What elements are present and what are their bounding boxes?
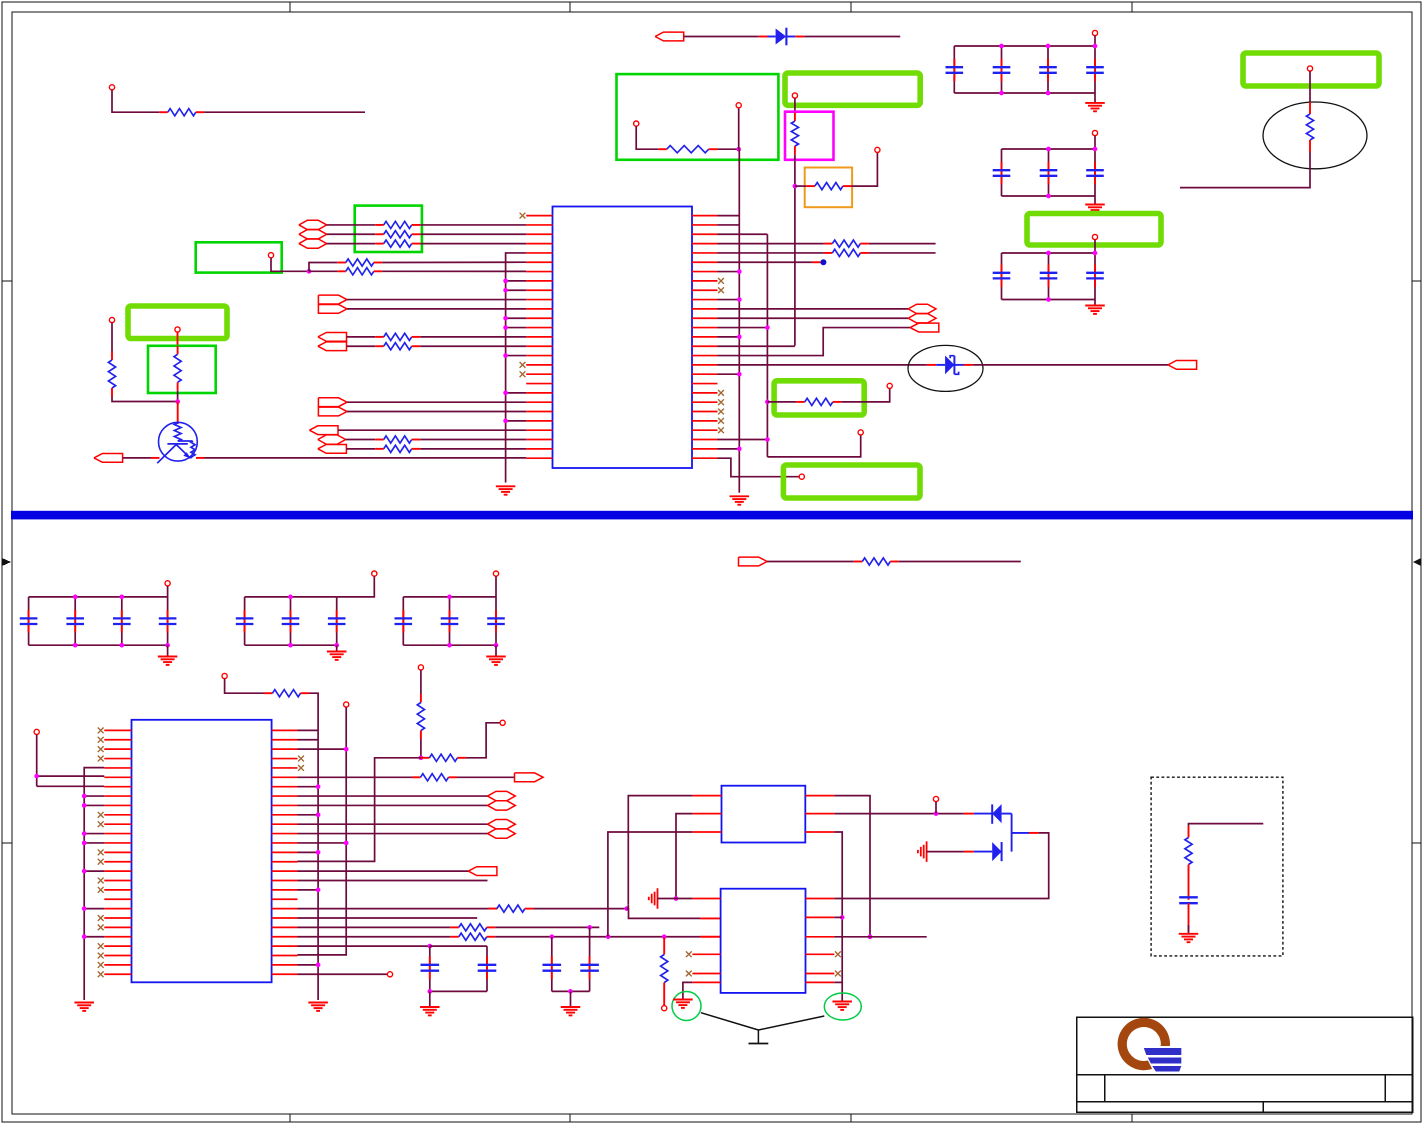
wire net3b bbox=[717, 148, 738, 150]
capacitor C25 bbox=[1179, 896, 1198, 898]
power pin P20 bbox=[222, 673, 227, 678]
IC U4 left pin stubs bbox=[692, 898, 720, 900]
wire net10a bbox=[327, 233, 376, 235]
port A8 bbox=[318, 444, 347, 453]
wire net24b bbox=[177, 391, 179, 402]
no-connect marks U2 left bbox=[98, 728, 104, 734]
wire net26 bbox=[718, 215, 740, 217]
wire net56b bbox=[533, 908, 626, 910]
junction J19 bbox=[840, 915, 845, 920]
junctions bank5 bbox=[288, 595, 293, 600]
wire net70 bbox=[834, 832, 842, 1001]
port A7 bbox=[309, 426, 338, 435]
junction J17 bbox=[868, 934, 873, 939]
wire net59b bbox=[495, 936, 700, 938]
wire net53 bbox=[298, 870, 469, 872]
power pin P3 bbox=[736, 103, 741, 108]
power pin P14 bbox=[799, 474, 804, 479]
wire net9b bbox=[420, 224, 526, 226]
wire net17b bbox=[420, 345, 526, 347]
wire net42t bbox=[495, 576, 497, 597]
wire net41t bbox=[337, 576, 375, 597]
capacitor C6 bbox=[1048, 149, 1050, 196]
resistor R10 bbox=[337, 270, 346, 272]
resistor R6 bbox=[375, 224, 384, 226]
highlight circle green 1 bbox=[672, 992, 701, 1021]
resistor R17 bbox=[824, 243, 833, 245]
wire net61b bbox=[430, 945, 487, 947]
diode D1 bbox=[759, 36, 768, 38]
earth bond wires bbox=[701, 1013, 759, 1030]
capacitor C20 bbox=[495, 597, 497, 645]
wire net25b bbox=[196, 457, 205, 459]
power pin P23 bbox=[500, 720, 505, 725]
wire net60 bbox=[663, 991, 665, 1006]
resistor R5 bbox=[1309, 102, 1311, 114]
capacitor C23 bbox=[429, 946, 431, 991]
port H3 bbox=[299, 239, 327, 248]
resistor R11 bbox=[375, 336, 384, 338]
capacitor bank rail net41 bbox=[245, 596, 337, 598]
highlight box green A bbox=[617, 74, 779, 160]
zener diode D2 bbox=[927, 364, 936, 366]
port H6 bbox=[908, 314, 936, 323]
wire net61c bbox=[430, 990, 487, 992]
wire net44 bbox=[36, 735, 38, 787]
wire net3c bbox=[738, 108, 740, 149]
dual diode D3 bbox=[964, 813, 974, 815]
capacitor bank rail net6 bbox=[1002, 148, 1096, 150]
wire net4b bbox=[794, 155, 796, 346]
wire net75 bbox=[1188, 903, 1190, 931]
power pin P1 bbox=[109, 85, 114, 90]
power pin P11 bbox=[109, 317, 114, 322]
resistor R9 bbox=[337, 262, 346, 264]
resistor R28 bbox=[663, 938, 665, 947]
highlight circle green 2 bbox=[824, 993, 861, 1020]
power pin P25 bbox=[387, 972, 392, 977]
wire net67b bbox=[935, 802, 937, 814]
node end marker bbox=[820, 259, 826, 265]
junctions bank6 bbox=[447, 595, 452, 600]
junctions bank3 bbox=[1046, 251, 1051, 256]
capacitor bank rail net42 bbox=[403, 596, 496, 598]
power pin P4 bbox=[792, 93, 797, 98]
highlight box lime B bbox=[1243, 53, 1379, 86]
IC U1 bbox=[553, 207, 693, 469]
junction rows bus46 bbox=[298, 786, 319, 788]
resistor R4 bbox=[806, 185, 815, 187]
wire net3a bbox=[636, 126, 658, 149]
port H4 bbox=[318, 435, 346, 444]
IC U4 bbox=[721, 889, 806, 993]
junction J3 bbox=[307, 269, 312, 274]
port H2 bbox=[299, 230, 327, 239]
power pin P26 bbox=[933, 796, 938, 801]
vertical bus net29 bbox=[718, 233, 768, 235]
wire net68 bbox=[927, 851, 964, 853]
port PORT3 bbox=[739, 557, 768, 566]
highlight box lime A bbox=[785, 73, 920, 105]
capacitor C4 bbox=[1094, 46, 1096, 93]
highlight box lime B2 bbox=[1027, 214, 1161, 246]
resistor R14 bbox=[375, 448, 384, 450]
port PORT4 bbox=[515, 773, 544, 782]
wire net59a bbox=[298, 936, 451, 938]
port H5 bbox=[908, 304, 936, 313]
wire net24a bbox=[177, 332, 179, 346]
wire net54 bbox=[298, 879, 488, 881]
port A9 bbox=[910, 323, 939, 332]
port A2 bbox=[318, 305, 347, 314]
capacitor C19 bbox=[449, 597, 451, 645]
wire net58b bbox=[495, 926, 599, 928]
ellipse marker E2 bbox=[1263, 102, 1367, 169]
wire net22b bbox=[420, 448, 526, 450]
ground GND13 bbox=[832, 1001, 852, 1003]
capacitor C12 bbox=[74, 597, 76, 645]
junction J11 bbox=[606, 934, 611, 939]
capacitor C22 bbox=[551, 937, 553, 992]
port H9 bbox=[488, 820, 516, 829]
wire net29b bbox=[767, 435, 860, 457]
IC U2 bbox=[132, 720, 272, 983]
capacitor bank rail net7 bbox=[1002, 252, 1096, 254]
wire net8a bbox=[1309, 71, 1311, 102]
ground GND6 bbox=[167, 645, 169, 656]
power pin P6 bbox=[1092, 30, 1097, 35]
capacitor C17 bbox=[336, 597, 338, 645]
wire net18 bbox=[347, 401, 526, 403]
wire net62 bbox=[298, 973, 388, 975]
ground GND11 bbox=[570, 991, 572, 1007]
IC U3 right pin stubs bbox=[805, 795, 834, 797]
wire net4d bbox=[851, 153, 877, 187]
power pin P24 bbox=[662, 1006, 667, 1011]
wire net23b bbox=[112, 397, 178, 402]
ellipse marker E1 bbox=[908, 345, 983, 391]
ground GND4 bbox=[496, 485, 515, 487]
wire net33 bbox=[718, 345, 795, 347]
highlight box lime C bbox=[774, 381, 864, 415]
junction rows bus45 bbox=[84, 795, 104, 797]
capacitor C16 bbox=[290, 597, 292, 645]
IC U2 left pin stubs bbox=[104, 729, 131, 731]
junction J6 bbox=[34, 774, 39, 779]
resistor R23 bbox=[420, 694, 422, 703]
power pin P15 bbox=[887, 383, 892, 388]
chassis ground GNDC2 bbox=[926, 841, 928, 862]
IC U1 left pin stubs bbox=[526, 215, 552, 217]
wire net46c bbox=[298, 729, 319, 731]
wire net17a bbox=[347, 345, 376, 347]
wire net55a bbox=[420, 670, 422, 694]
resistor R24 bbox=[421, 757, 430, 759]
wire net73 bbox=[1189, 824, 1264, 826]
no-connect marks U2 right bbox=[298, 756, 304, 762]
capacitor C21 bbox=[589, 927, 591, 991]
capacitor C13 bbox=[121, 597, 123, 645]
power pin P9 bbox=[1307, 66, 1312, 71]
power pin P18 bbox=[493, 571, 498, 576]
resistor R3 bbox=[794, 113, 796, 122]
junctions bank1 bbox=[999, 44, 1004, 49]
capacitor C18 bbox=[402, 597, 404, 645]
wire net16b bbox=[420, 336, 526, 338]
wire net63 bbox=[628, 796, 692, 905]
no-connect marks U4 bbox=[686, 951, 692, 957]
wire net70b bbox=[834, 916, 842, 918]
junction J2 bbox=[793, 184, 798, 189]
wire net61a bbox=[298, 945, 430, 947]
bus net47 bbox=[298, 707, 347, 955]
wire net12b bbox=[309, 263, 337, 272]
wire net11b bbox=[420, 243, 526, 245]
wire net57 bbox=[298, 917, 478, 919]
wire net14 bbox=[347, 299, 526, 301]
junction J8 bbox=[624, 906, 629, 911]
highlight box green B bbox=[196, 242, 282, 272]
wire net65 bbox=[608, 832, 693, 937]
wire net4c bbox=[795, 185, 807, 187]
ground GND7 bbox=[336, 645, 338, 651]
junction J5 bbox=[765, 400, 770, 405]
wire net72 bbox=[683, 982, 693, 999]
resistor R18 bbox=[824, 252, 833, 254]
wire net9a bbox=[327, 224, 376, 226]
wire net49 bbox=[298, 795, 488, 797]
power pin P16 bbox=[165, 581, 170, 586]
power pin P22 bbox=[418, 665, 423, 670]
ground GND12 bbox=[429, 991, 431, 1007]
vertical bus net28 bbox=[738, 149, 740, 493]
highlight box green G bbox=[148, 346, 216, 393]
resistor R26 bbox=[450, 926, 459, 928]
port H1 bbox=[299, 220, 327, 229]
highlight box magenta bbox=[785, 112, 834, 160]
wire net2a bbox=[684, 36, 759, 38]
dashed outline box bbox=[1151, 777, 1283, 956]
wire net30b bbox=[869, 243, 936, 245]
wire net21b bbox=[420, 439, 526, 441]
wire net37b bbox=[973, 364, 1168, 366]
junction J18 bbox=[934, 811, 939, 816]
ground GND3 bbox=[1094, 300, 1096, 306]
section divider bus bar bbox=[11, 511, 1413, 520]
power pin P17 bbox=[372, 571, 377, 576]
junctions bus28 bbox=[718, 271, 740, 273]
resistor R22 bbox=[412, 776, 421, 778]
wire net30a bbox=[718, 243, 824, 245]
IC U4 right pin stubs bbox=[806, 898, 835, 900]
wire net69 bbox=[834, 833, 1048, 899]
junction J15 bbox=[427, 989, 432, 994]
wire net19 bbox=[347, 411, 526, 413]
resistor R13 bbox=[375, 439, 384, 441]
ground bus wire net13 bbox=[506, 253, 527, 483]
junction rows bus47 bbox=[298, 748, 347, 750]
port A4 bbox=[318, 342, 347, 351]
port A5 bbox=[318, 398, 347, 407]
wire net58a bbox=[298, 926, 451, 928]
wire net11a bbox=[327, 243, 376, 245]
resistor R2 bbox=[658, 148, 667, 150]
ground GND15 bbox=[1179, 933, 1199, 935]
wire net16a bbox=[347, 336, 376, 338]
wire net1b bbox=[204, 111, 365, 113]
resistor R16 bbox=[177, 346, 179, 355]
capacitor C1 bbox=[953, 46, 955, 93]
wire net51 bbox=[298, 823, 488, 825]
junction J12 bbox=[662, 934, 667, 939]
resistor R7 bbox=[375, 233, 384, 235]
wire net20 bbox=[338, 429, 526, 431]
ground GND1 bbox=[1094, 93, 1096, 103]
junction J16 bbox=[674, 896, 679, 901]
wire net55b bbox=[420, 739, 422, 758]
junctions bank4 bbox=[73, 595, 78, 600]
ground GND5 bbox=[730, 495, 750, 497]
wire net55c bbox=[298, 758, 421, 862]
chassis ground GNDC1 bbox=[657, 888, 659, 909]
IC U3 bbox=[722, 786, 806, 843]
junction J9 bbox=[587, 925, 592, 930]
transistor Q1 bbox=[177, 402, 179, 425]
resistor R20 bbox=[854, 561, 863, 563]
capacitor C10 bbox=[1094, 253, 1096, 300]
capacitor C2 bbox=[1001, 46, 1003, 93]
wire net56c bbox=[627, 909, 700, 919]
highlight box lime D bbox=[783, 465, 920, 498]
wire net2b bbox=[804, 36, 900, 38]
highlight box lime E bbox=[128, 306, 227, 339]
wire net31b bbox=[869, 252, 936, 254]
junction row bus13 bbox=[506, 280, 527, 282]
ground GND8 bbox=[495, 645, 497, 656]
wire net55d bbox=[466, 723, 500, 758]
wire net50 bbox=[298, 804, 488, 806]
power pin P5 bbox=[875, 147, 880, 152]
wire net6t bbox=[1094, 136, 1096, 149]
capacitor C7 bbox=[1094, 149, 1096, 196]
wire net43b bbox=[899, 561, 1021, 563]
junctions bus29 bbox=[718, 327, 768, 329]
power pin P21 bbox=[344, 702, 349, 707]
wire net48b bbox=[457, 776, 515, 778]
capacitor C8 bbox=[1001, 253, 1003, 300]
resistor R27 bbox=[450, 936, 459, 938]
ground GND9 bbox=[74, 1002, 94, 1004]
wire net70c bbox=[834, 981, 842, 983]
wire net32 bbox=[718, 261, 812, 263]
port H7 bbox=[488, 791, 516, 800]
wire net39a bbox=[767, 401, 796, 403]
junction J7 bbox=[419, 755, 424, 760]
port A1 bbox=[318, 295, 347, 304]
wire net7t bbox=[1094, 240, 1096, 253]
wire net12c bbox=[382, 261, 526, 263]
IC U1 right pin stubs bbox=[692, 215, 718, 217]
capacitor C3 bbox=[1047, 46, 1049, 93]
resistor R29 bbox=[1188, 826, 1190, 838]
wire net4a bbox=[794, 98, 796, 112]
wire net48a bbox=[298, 776, 413, 778]
wire net34 bbox=[718, 308, 909, 310]
wire net64b bbox=[658, 898, 693, 900]
capacitor C5 bbox=[1001, 149, 1003, 196]
junctions bank2 bbox=[1046, 147, 1051, 152]
wire net12d bbox=[309, 270, 337, 272]
port H10 bbox=[488, 829, 516, 838]
wire net66 bbox=[834, 796, 870, 937]
wire net8b bbox=[1180, 152, 1310, 188]
port A10 bbox=[1168, 360, 1197, 369]
wire net71 bbox=[834, 936, 926, 938]
wire net1 bbox=[112, 90, 159, 112]
power pin P12 bbox=[175, 327, 180, 332]
ground GND14 bbox=[673, 999, 693, 1001]
wire net39b bbox=[841, 389, 889, 402]
capacitor C24 bbox=[486, 946, 488, 991]
power pin P13 bbox=[858, 430, 863, 435]
power pin P8 bbox=[1092, 234, 1097, 239]
wire net74 bbox=[1188, 876, 1190, 900]
port PORT1 bbox=[655, 32, 684, 41]
ground GND10 bbox=[308, 1002, 328, 1004]
wire net23a bbox=[111, 323, 113, 352]
no-connect marks U1 left bbox=[520, 213, 526, 219]
highlight box orange bbox=[805, 168, 852, 208]
resistor R21 bbox=[264, 692, 273, 694]
junction J4 bbox=[175, 399, 180, 404]
wire net12e bbox=[382, 270, 526, 272]
capacitor C9 bbox=[1048, 253, 1050, 300]
resistor R8 bbox=[375, 243, 384, 245]
power pin P10b bbox=[268, 253, 273, 258]
resistor R12 bbox=[375, 345, 384, 347]
port H8 bbox=[488, 801, 516, 810]
power pin P7 bbox=[1092, 130, 1097, 135]
wire net56a bbox=[298, 908, 498, 910]
power pin P19 bbox=[34, 729, 39, 734]
wire net36 bbox=[718, 328, 911, 356]
resistor R1 bbox=[159, 111, 168, 113]
wire net27 bbox=[718, 224, 740, 226]
resistor R19 bbox=[796, 401, 805, 403]
resistor R25 bbox=[488, 908, 497, 910]
junction J13 bbox=[568, 989, 573, 994]
wire net59c bbox=[552, 990, 590, 992]
wire net37a bbox=[718, 364, 927, 366]
capacitor C15 bbox=[244, 597, 246, 645]
wire net46b bbox=[309, 693, 318, 1000]
wire net10b bbox=[420, 233, 526, 235]
wire net31a bbox=[718, 252, 824, 254]
wire net67 bbox=[834, 813, 964, 815]
wire net64 bbox=[676, 814, 692, 899]
wire net43a bbox=[767, 561, 854, 563]
port A3 bbox=[318, 332, 347, 341]
wire net38 bbox=[718, 458, 800, 477]
IC U2 right pin stubs bbox=[272, 729, 298, 731]
wire net21a bbox=[346, 439, 376, 441]
wire net25a bbox=[123, 457, 151, 459]
capacitor C14 bbox=[167, 597, 169, 645]
wire net12a bbox=[271, 258, 309, 271]
junction J10 bbox=[549, 934, 554, 939]
capacitor C11 bbox=[28, 597, 30, 645]
junction J1 bbox=[736, 147, 741, 152]
